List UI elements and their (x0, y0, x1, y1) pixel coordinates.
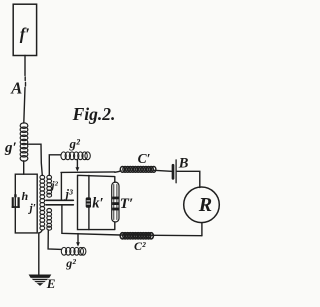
svg-text:j′: j′ (28, 203, 36, 215)
svg-text:g²: g² (69, 136, 82, 151)
svg-text:R: R (198, 194, 212, 216)
svg-text:j³: j³ (64, 187, 73, 201)
svg-text:C²: C² (134, 239, 146, 253)
svg-text:Fig.2.: Fig.2. (72, 104, 116, 124)
svg-text:E: E (46, 276, 56, 291)
svg-text:T′: T′ (120, 196, 133, 212)
svg-text:g²: g² (65, 256, 76, 270)
svg-text:B: B (178, 155, 189, 171)
svg-text:k′: k′ (92, 196, 103, 212)
svg-text:g′: g′ (4, 140, 17, 156)
svg-text:j²: j² (50, 180, 59, 192)
svg-text:h: h (22, 189, 29, 203)
svg-text:C′: C′ (138, 151, 151, 166)
svg-text:A: A (10, 79, 22, 98)
svg-text:f′: f′ (20, 25, 30, 44)
